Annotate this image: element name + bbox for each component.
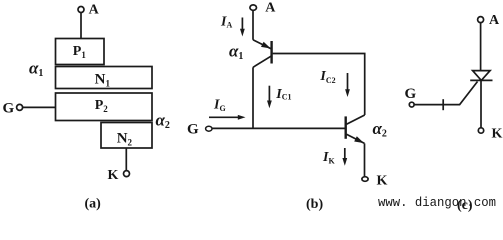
layer N2	[101, 123, 152, 149]
svg-text:G: G	[3, 101, 15, 117]
wire A to P1 (a)	[80, 13, 82, 39]
current arrow IG	[209, 115, 246, 120]
svg-text:(a): (a)	[85, 197, 102, 212]
svg-text:α1: α1	[29, 58, 43, 79]
svg-text:P2: P2	[95, 98, 109, 114]
wire Q1 base to Q2 collector	[273, 54, 365, 116]
wire A to thyristor (c)	[480, 23, 482, 71]
layer N1	[56, 67, 153, 89]
terminal A of structure (a)	[78, 7, 84, 13]
svg-text:IC2: IC2	[319, 69, 335, 85]
svg-text:(b): (b)	[306, 197, 323, 212]
current arrow IK	[342, 148, 347, 166]
transistor Q2 emitter with arrow (NPN)	[347, 134, 365, 143]
wire G to Q2 base	[212, 127, 346, 129]
svg-text:IK: IK	[322, 150, 335, 166]
svg-text:www. diangon.com: www. diangon.com	[378, 195, 496, 210]
svg-text:α2: α2	[373, 119, 387, 140]
svg-text:A: A	[89, 3, 100, 18]
transistor Q1 collector	[253, 56, 272, 68]
transistor Q2 collector	[347, 115, 365, 124]
thyristor triangle	[473, 71, 491, 81]
svg-text:N2: N2	[117, 130, 133, 147]
transistor Q1 base bar	[270, 41, 272, 64]
svg-text:K: K	[492, 127, 503, 142]
terminal A (b)	[250, 0, 276, 15]
wire G to P2 (a)	[23, 106, 56, 108]
svg-text:P1: P1	[73, 44, 87, 60]
wire Q2 emitter to K	[364, 143, 366, 176]
svg-text:IC1: IC1	[275, 87, 291, 102]
svg-text:K: K	[377, 174, 388, 189]
wire N2 to K (a)	[125, 148, 127, 171]
current arrow IC2	[345, 73, 350, 97]
svg-text:A: A	[265, 0, 276, 15]
svg-text:K: K	[108, 168, 119, 183]
wire A to Q1 emitter (b)	[252, 10, 254, 39]
current arrow IA	[240, 18, 245, 37]
layer P1	[56, 39, 105, 65]
gate wire (c)	[414, 82, 477, 105]
terminal K (c)	[478, 127, 502, 142]
current arrow IC1	[267, 86, 272, 109]
thyristor cathode bar	[470, 79, 492, 81]
wire Q1 collector down to gate node	[252, 67, 254, 128]
terminal G of structure (a)	[3, 101, 23, 117]
svg-text:IA: IA	[220, 14, 232, 29]
terminal K of structure (a)	[108, 168, 130, 183]
wire thyristor to K (c)	[480, 80, 482, 128]
svg-text:A: A	[489, 13, 500, 28]
terminal A (c)	[478, 13, 500, 28]
svg-text:IG: IG	[213, 98, 226, 113]
terminal G (c)	[405, 86, 417, 107]
terminal G (b)	[187, 122, 212, 138]
transistor Q1 emitter with arrow (PNP)	[253, 40, 271, 49]
svg-text:G: G	[405, 86, 417, 102]
terminal K (b)	[362, 174, 388, 189]
svg-text:N1: N1	[95, 71, 111, 88]
svg-text:G: G	[187, 122, 199, 138]
svg-text:α1: α1	[229, 41, 243, 62]
svg-text:α2: α2	[156, 111, 170, 132]
transistor Q2 base bar	[345, 116, 347, 138]
gate tick mark (c)	[442, 99, 444, 110]
layer P2	[56, 93, 153, 121]
